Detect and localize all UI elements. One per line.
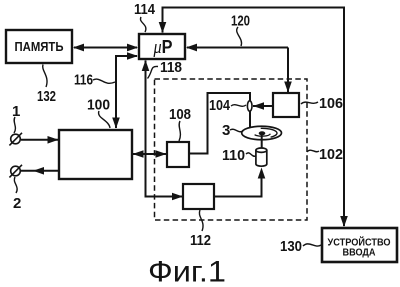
svg-text:3: 3 <box>222 122 230 139</box>
svg-text:ПАМЯТЬ: ПАМЯТЬ <box>15 39 64 54</box>
microprocessor box U114 µP <box>139 34 185 59</box>
wire 106 to lens 104 <box>253 102 273 110</box>
svg-text:102: 102 <box>319 146 343 163</box>
wire 120 from vertical feed into microprocessor right edge and down to box 106 <box>186 44 292 93</box>
signal processing box 100 <box>59 130 132 179</box>
label 116 <box>74 72 115 89</box>
servo box 112 <box>183 184 214 209</box>
wire terminal 1 into box 100 <box>21 136 59 144</box>
svg-text:108: 108 <box>169 106 191 123</box>
terminal 2 <box>9 165 22 178</box>
wire 112 to spindle motor 110 <box>214 168 265 197</box>
input device box 130 УСТРОЙСТВО ВВОДА <box>322 228 397 262</box>
label 110 <box>222 147 256 164</box>
wire top: microprocessor top to input device 130 <box>159 8 348 228</box>
svg-text:120: 120 <box>231 13 250 30</box>
terminal 1 <box>9 133 22 146</box>
svg-text:2: 2 <box>13 195 21 212</box>
svg-text:116: 116 <box>74 72 93 89</box>
spindle motor 110 (cylinder) <box>256 148 267 166</box>
optical disc 3 <box>242 126 282 140</box>
svg-text:114: 114 <box>134 1 156 18</box>
objective lens 104 <box>247 101 252 111</box>
svg-text:118: 118 <box>160 59 182 76</box>
label 118 <box>148 59 183 79</box>
label 2 <box>13 177 21 212</box>
laser beam from lens to disc <box>249 111 251 134</box>
label 104 <box>209 97 246 114</box>
svg-text:1: 1 <box>12 103 20 120</box>
label 106 <box>301 95 343 112</box>
svg-text:132: 132 <box>37 88 56 105</box>
wire optical path from 108 up and over to lens 104 <box>189 93 250 154</box>
wire box 100 out to terminal 2 <box>21 167 59 175</box>
wire memory to microprocessor bidirectional <box>73 44 138 52</box>
label 120 <box>231 13 250 47</box>
memory box U132 ПАМЯТЬ <box>6 30 72 63</box>
label 1 <box>12 103 20 133</box>
svg-text:Фиг.1: Фиг.1 <box>148 256 226 287</box>
wire 116: bidirectional between microprocessor left and box 100 top <box>112 52 138 128</box>
svg-text:106: 106 <box>319 95 343 112</box>
svg-text:130: 130 <box>280 238 302 255</box>
spindle shaft <box>261 134 263 149</box>
label 112 <box>190 210 211 249</box>
svg-text:112: 112 <box>190 232 211 249</box>
label 130 <box>280 238 321 255</box>
label 100 <box>87 97 110 129</box>
wire 100 to 108 bidirectional <box>133 150 167 158</box>
optical pickup box 108 <box>167 142 189 167</box>
svg-text:μP: μP <box>153 36 173 58</box>
dashed enclosure 102 (drive unit) <box>155 79 308 220</box>
label 132 <box>37 65 56 106</box>
svg-text:104: 104 <box>209 97 231 114</box>
svg-text:110: 110 <box>222 147 245 164</box>
label 3 <box>222 122 243 139</box>
label 114 <box>134 1 156 32</box>
actuator box 106 <box>273 93 299 117</box>
label 108 <box>169 106 191 141</box>
label 102 <box>307 146 343 163</box>
svg-text:ВВОДА: ВВОДА <box>343 248 376 259</box>
wire 118: microprocessor bottom down and into box 112 left <box>142 60 183 200</box>
